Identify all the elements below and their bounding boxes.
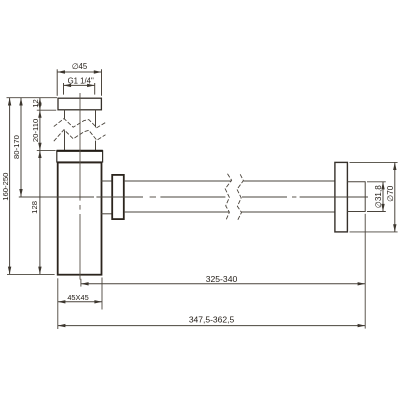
dim d45 extension lines [57, 69, 101, 96]
trap nut [57, 151, 103, 162]
dim 325-340 text [206, 274, 238, 284]
tailpiece wall lower left [64, 130, 66, 150]
dim 128 text [30, 201, 39, 214]
dim 12 text [31, 99, 40, 108]
svg-text:∅45: ∅45 [72, 62, 88, 71]
extension pipe end down [364, 214, 366, 329]
vertical centerline [79, 93, 81, 280]
left extension at nut top [37, 149, 56, 151]
pipe break line A [225, 174, 231, 220]
svg-text:12: 12 [31, 99, 40, 108]
tailpiece wall upper left [64, 110, 66, 119]
extension body right edge down [101, 278, 103, 310]
extension body left edge down [57, 278, 59, 329]
dim 45X45 text [67, 293, 88, 302]
outlet stub bottom [101, 213, 113, 215]
dim 347,5-362,5 line [58, 325, 365, 327]
dim d31,8 extension lines [367, 182, 386, 212]
outlet stub top [101, 180, 113, 182]
dim d45 text [72, 62, 88, 71]
trap body [58, 163, 102, 275]
extension pipe axis below body [80, 279, 82, 287]
dim d70 line [394, 162, 396, 232]
dim d31,8 line [382, 182, 384, 212]
dim 80-170 text [12, 135, 21, 159]
break line 2 [54, 130, 106, 142]
dim 325-340 arrows [81, 282, 365, 285]
dim d45 line [57, 71, 101, 73]
tailpiece wall lower right [95, 141, 97, 151]
pipe centerline with 80-170 extension [19, 196, 368, 198]
pipe break line B [237, 174, 243, 220]
svg-text:347,5-362,5: 347,5-362,5 [189, 314, 235, 324]
dim d31,8 text [374, 185, 383, 209]
trap nut top thick edge [57, 150, 103, 152]
dim G1 1/4 line [64, 84, 95, 86]
dim 325-340 line [81, 283, 365, 285]
dim 160-250 text [1, 173, 10, 201]
left top extension line [7, 97, 58, 99]
dim 160-250 arrows [8, 98, 11, 274]
svg-text:∅70: ∅70 [386, 185, 395, 202]
dim G1 1/4 arrows [64, 84, 95, 87]
dim 80-170 line [20, 98, 22, 197]
dim d70 arrows [393, 162, 396, 232]
svg-text:325-340: 325-340 [206, 274, 238, 284]
dim 80-170 arrows [19, 98, 22, 197]
svg-text:160-250: 160-250 [1, 173, 10, 201]
dim 45X45 arrows [58, 300, 102, 303]
pipe bottom wall left segment [124, 211, 229, 213]
pipe top wall right segment [243, 180, 335, 182]
svg-text:G1 1/4": G1 1/4" [68, 76, 94, 85]
dim 20-110 text [31, 119, 40, 142]
dim chain arrows [38, 98, 41, 274]
dim d70 text [386, 185, 395, 202]
dim 347,5-362,5 text [189, 314, 235, 324]
dim 347,5-362,5 arrows [58, 324, 365, 327]
dim d45 arrows [57, 70, 101, 73]
dim G1 1/4 text [68, 76, 94, 85]
pipe top wall left segment [124, 180, 232, 182]
dim 45X45 line [58, 301, 102, 303]
svg-text:20-110: 20-110 [31, 119, 40, 142]
break line 1 [54, 119, 106, 128]
top flange [58, 98, 101, 110]
outlet nut [112, 175, 124, 219]
tailpiece wall upper right [95, 110, 97, 128]
svg-text:128: 128 [30, 201, 39, 214]
dim d70 extension lines [350, 162, 398, 232]
svg-text:80-170: 80-170 [12, 135, 21, 159]
pipe end cap [364, 181, 366, 212]
svg-text:∅31,8: ∅31,8 [374, 185, 383, 209]
left extension at flange bottom [37, 109, 56, 111]
pipe end bottom wall [347, 211, 365, 213]
pipe bottom wall right segment [242, 211, 335, 213]
pipe end top wall [347, 181, 365, 183]
svg-text:45X45: 45X45 [67, 293, 88, 302]
dim 160-250 line [9, 98, 11, 274]
dim G1 1/4 extension lines [64, 83, 95, 95]
dim chain line 12 / 20-110 / 128 [39, 98, 41, 274]
dim d31,8 arrows [381, 182, 384, 212]
wall flange [335, 162, 348, 232]
left extension at body bottom [7, 273, 55, 275]
